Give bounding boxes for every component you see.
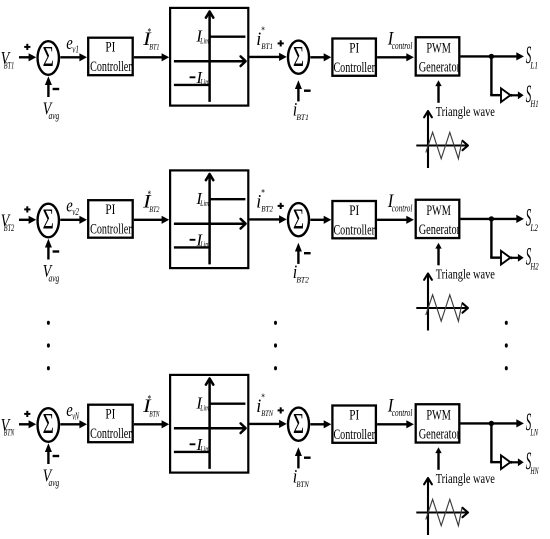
limiter horizontal axis row 2 bbox=[174, 219, 246, 229]
svg-text:Lim: Lim bbox=[200, 77, 210, 86]
vertical ellipsis dots (right column) bbox=[505, 321, 508, 371]
wire inverter to S_H2 row 2 bbox=[513, 254, 524, 262]
svg-text:PI: PI bbox=[105, 407, 115, 423]
triangle wave symbol horizontal axis row 1 bbox=[416, 141, 468, 150]
junction node dot on PWM output row 3 bbox=[489, 421, 494, 426]
branch wire down to inverter row 2 bbox=[490, 219, 502, 258]
limiter lower saturation level line row 2 bbox=[174, 246, 210, 248]
node I*_BT2 reference current label bbox=[142, 189, 160, 214]
current limiter block (saturation) row 1 bbox=[170, 8, 248, 106]
svg-text:BT1: BT1 bbox=[261, 41, 273, 51]
limiter lower saturation level line row 3 bbox=[174, 451, 210, 453]
svg-text:v1: v1 bbox=[72, 45, 79, 56]
svg-text:PI: PI bbox=[349, 203, 359, 219]
wire PWM generator output to S_L2 row 2 bbox=[461, 215, 524, 223]
svg-text:Lim: Lim bbox=[200, 37, 210, 46]
svg-text:H1: H1 bbox=[530, 99, 539, 109]
plus sign at current summer row 3 bbox=[278, 407, 284, 413]
svg-text:Controller: Controller bbox=[90, 59, 132, 75]
wire PI controller to current limiter row 2 bbox=[134, 216, 169, 224]
node i*_BT2 limited reference label bbox=[256, 188, 273, 213]
node I_control label row 2 bbox=[387, 191, 413, 214]
summing junction (current loop, row 3) bbox=[288, 408, 309, 441]
svg-text:Σ: Σ bbox=[43, 41, 54, 73]
svg-text:Triangle wave: Triangle wave bbox=[436, 472, 495, 487]
i_BT1 feedback arrow into current summer row 1 bbox=[295, 80, 302, 101]
limiter lower saturation level line row 1 bbox=[174, 84, 210, 86]
svg-text:Triangle wave: Triangle wave bbox=[436, 267, 495, 282]
minus sign at voltage summer row 1 bbox=[53, 88, 60, 90]
triangle wave symbol vertical axis row 1 bbox=[424, 111, 432, 168]
wire V_BT1 to voltage summer bbox=[19, 53, 36, 61]
svg-text:Lim: Lim bbox=[200, 444, 210, 453]
wire current summer to PI controller row 3 bbox=[310, 420, 331, 428]
vertical ellipsis dots (middle column) bbox=[274, 321, 277, 371]
summing junction (voltage loop, row 1) bbox=[38, 41, 59, 75]
svg-text:BTN: BTN bbox=[296, 479, 309, 489]
minus sign at voltage summer row 3 bbox=[53, 455, 60, 457]
svg-text:Σ: Σ bbox=[43, 204, 54, 236]
wire current summer to PI controller row 1 bbox=[310, 53, 331, 61]
svg-text:PWM: PWM bbox=[426, 407, 451, 423]
svg-text:H2: H2 bbox=[530, 262, 539, 272]
wire current summer to PI controller row 2 bbox=[310, 216, 331, 224]
limiter vertical axis row 3 bbox=[206, 379, 213, 469]
triangle wave carrier arrow into PWM generator row 2 bbox=[435, 243, 441, 265]
wire PI controller to PWM generator row 1 bbox=[377, 53, 414, 61]
svg-text:*: * bbox=[148, 394, 152, 405]
svg-text:Controller: Controller bbox=[333, 60, 375, 76]
PI controller block U1b (current loop) bbox=[332, 39, 376, 77]
wire voltage summer to PI controller row 1, error e_v1 bbox=[60, 53, 87, 61]
svg-text:BT2: BT2 bbox=[4, 223, 15, 233]
PI controller block U3b (current loop) bbox=[332, 406, 376, 444]
node S_HN output label bbox=[526, 448, 539, 476]
plus sign at current summer row 1 bbox=[278, 40, 284, 46]
svg-text:BT1: BT1 bbox=[4, 61, 14, 71]
svg-text:avg: avg bbox=[49, 478, 60, 489]
svg-text:PI: PI bbox=[349, 407, 359, 423]
wire inverter to S_HN row 3 bbox=[513, 458, 524, 466]
node V_BT1 input label bbox=[1, 48, 14, 71]
wire V_BTN to voltage summer bbox=[19, 420, 36, 428]
PI controller block U2a (voltage loop) bbox=[88, 200, 133, 238]
triangle wave symbol vertical axis row 3 bbox=[424, 478, 432, 535]
node V_avg label bbox=[43, 261, 60, 284]
svg-text:BT2: BT2 bbox=[261, 204, 273, 214]
junction node dot on PWM output row 1 bbox=[489, 54, 494, 59]
svg-text:*: * bbox=[261, 188, 265, 199]
svg-text:Σ: Σ bbox=[293, 42, 304, 73]
svg-text:PWM: PWM bbox=[426, 40, 451, 56]
node e_vN error label bbox=[66, 400, 80, 423]
limiter I_Lim value label row 3 bbox=[195, 394, 209, 413]
wire limiter to current summer row 1 bbox=[249, 53, 286, 61]
wire V_BT2 to voltage summer bbox=[19, 216, 36, 224]
svg-text:Controller: Controller bbox=[333, 427, 375, 443]
wire PI controller to PWM generator row 3 bbox=[377, 420, 414, 428]
svg-text:control: control bbox=[392, 408, 413, 419]
node V_avg label bbox=[43, 466, 60, 489]
svg-text:vN: vN bbox=[72, 412, 80, 423]
svg-text:BTN: BTN bbox=[261, 408, 274, 418]
svg-text:PI: PI bbox=[105, 202, 115, 218]
triangle wave carrier arrow into PWM generator row 3 bbox=[435, 447, 441, 470]
svg-text:Controller: Controller bbox=[90, 426, 132, 442]
svg-text:control: control bbox=[392, 41, 413, 52]
summing junction (voltage loop, row 3) bbox=[38, 408, 59, 442]
branch wire down to inverter row 3 bbox=[490, 423, 502, 462]
PI controller block U1a (voltage loop) bbox=[88, 38, 133, 75]
svg-text:Controller: Controller bbox=[90, 222, 132, 238]
wire limiter to current summer row 2 bbox=[249, 215, 286, 223]
triangle wave symbol horizontal axis row 3 bbox=[416, 508, 468, 517]
limiter vertical axis row 1 bbox=[206, 12, 213, 102]
svg-text:BT2: BT2 bbox=[296, 275, 309, 285]
PWM generator block row 3 bbox=[416, 404, 460, 442]
svg-text:Lim: Lim bbox=[200, 404, 210, 413]
wire inverter to S_H1 row 1 bbox=[513, 91, 524, 99]
triangle wave zigzag waveform row 3 bbox=[426, 499, 462, 525]
inverter (NOT) gate row 2 bbox=[501, 251, 513, 265]
triangle wave carrier arrow into PWM generator row 1 bbox=[435, 80, 441, 103]
svg-text:BT2: BT2 bbox=[149, 204, 160, 214]
node i_BT1 feedback current label bbox=[293, 100, 309, 123]
wire voltage summer to PI controller row 2, error e_v2 bbox=[60, 216, 87, 224]
svg-text:*: * bbox=[261, 393, 265, 404]
wire PWM generator output to S_LN row 3 bbox=[461, 419, 524, 427]
triangle wave zigzag waveform row 1 bbox=[426, 132, 462, 158]
node e_v2 error label bbox=[66, 195, 79, 218]
node S_H1 output label bbox=[526, 81, 539, 109]
wire PI controller to current limiter row 1 bbox=[134, 53, 169, 61]
svg-text:Generator: Generator bbox=[419, 427, 460, 443]
i_BTN feedback arrow into current summer row 3 bbox=[295, 447, 302, 468]
current limiter block (saturation) row 2 bbox=[170, 170, 248, 268]
summing junction (current loop, row 1) bbox=[288, 41, 309, 74]
svg-text:BTN: BTN bbox=[149, 408, 160, 418]
limiter -I_Lim value label row 2 bbox=[190, 231, 210, 250]
triangle wave symbol vertical axis row 2 bbox=[424, 274, 432, 331]
plus sign at current summer row 2 bbox=[278, 203, 284, 209]
minus sign at voltage summer row 2 bbox=[53, 250, 60, 252]
wire voltage summer to PI controller row 3, error e_vN bbox=[60, 420, 87, 428]
triangle wave symbol horizontal axis row 2 bbox=[416, 303, 468, 312]
limiter upper saturation level line row 2 bbox=[210, 198, 246, 200]
svg-text:PWM: PWM bbox=[426, 203, 451, 219]
svg-text:Triangle wave: Triangle wave bbox=[436, 105, 495, 120]
node I_control label row 1 bbox=[387, 29, 413, 52]
svg-text:Generator: Generator bbox=[419, 222, 460, 238]
limiter I_Lim value label row 2 bbox=[195, 189, 209, 208]
PWM generator block row 2 bbox=[416, 200, 460, 238]
node I*_BTN reference current label bbox=[142, 394, 160, 419]
limiter I_Lim value label row 1 bbox=[195, 27, 209, 46]
plus sign at summer S1a input bbox=[24, 44, 30, 50]
node V_avg label bbox=[43, 99, 60, 122]
svg-text:BT1: BT1 bbox=[149, 41, 159, 51]
svg-text:v2: v2 bbox=[72, 207, 79, 218]
node e_v1 error label bbox=[66, 33, 79, 56]
V_avg feedback arrow into voltage summer row 2 bbox=[45, 239, 52, 260]
PI controller block U2b (current loop) bbox=[332, 201, 376, 239]
wire PI controller to current limiter row 3 bbox=[134, 420, 169, 428]
svg-text:Generator: Generator bbox=[419, 60, 460, 76]
triangle wave zigzag waveform row 2 bbox=[426, 295, 462, 321]
minus sign at current summer row 2 bbox=[304, 252, 311, 254]
svg-text:L2: L2 bbox=[530, 223, 539, 233]
node V_BT2 input label bbox=[1, 210, 15, 233]
limiter upper saturation level line row 1 bbox=[210, 36, 246, 38]
limiter -I_Lim value label row 3 bbox=[190, 435, 210, 454]
svg-text:Σ: Σ bbox=[293, 409, 304, 440]
inverter (NOT) gate row 3 bbox=[501, 455, 513, 469]
plus sign at summer S3a input bbox=[24, 411, 30, 417]
svg-text:avg: avg bbox=[49, 273, 60, 284]
minus sign at current summer row 1 bbox=[304, 89, 311, 91]
svg-text:avg: avg bbox=[49, 111, 60, 122]
svg-text:control: control bbox=[392, 203, 413, 214]
wire limiter to current summer row 3 bbox=[249, 420, 286, 428]
summing junction (current loop, row 2) bbox=[288, 203, 309, 236]
svg-text:Lim: Lim bbox=[200, 240, 210, 249]
plus sign at summer S2a input bbox=[24, 206, 30, 212]
PWM generator block row 1 bbox=[416, 37, 460, 75]
svg-text:HN: HN bbox=[530, 466, 539, 476]
vertical ellipsis dots (left column) bbox=[47, 321, 50, 371]
V_avg feedback arrow into voltage summer row 1 bbox=[45, 76, 52, 97]
node i_BTN feedback current label bbox=[293, 467, 310, 490]
minus sign at current summer row 3 bbox=[304, 457, 311, 459]
svg-text:LN: LN bbox=[530, 427, 539, 437]
svg-text:PI: PI bbox=[105, 40, 115, 56]
svg-text:Σ: Σ bbox=[43, 408, 54, 440]
svg-text:L1: L1 bbox=[530, 60, 538, 70]
svg-text:Lim: Lim bbox=[200, 199, 210, 208]
node S_L2 output label bbox=[526, 204, 539, 233]
current limiter block (saturation) row 3 bbox=[170, 375, 248, 473]
junction node dot on PWM output row 2 bbox=[489, 216, 494, 221]
summing junction (voltage loop, row 2) bbox=[38, 204, 59, 238]
PI controller block U3a (voltage loop) bbox=[88, 405, 133, 443]
node i*_BTN limited reference label bbox=[256, 393, 274, 418]
limiter upper saturation level line row 3 bbox=[210, 403, 246, 405]
branch wire down to inverter row 1 bbox=[490, 56, 502, 95]
node S_H2 output label bbox=[526, 243, 539, 271]
svg-text:BT1: BT1 bbox=[296, 112, 308, 122]
node I*_BT1 reference current label bbox=[142, 27, 160, 52]
svg-text:BTN: BTN bbox=[4, 428, 15, 438]
node V_BTN input label bbox=[1, 415, 15, 438]
wire PWM generator output to S_L1 row 1 bbox=[461, 52, 524, 60]
node i_BT2 feedback current label bbox=[293, 262, 310, 285]
svg-text:*: * bbox=[261, 26, 265, 37]
svg-text:Controller: Controller bbox=[333, 223, 375, 239]
limiter -I_Lim value label row 1 bbox=[190, 68, 210, 87]
V_avg feedback arrow into voltage summer row 3 bbox=[45, 443, 52, 464]
svg-text:Σ: Σ bbox=[293, 204, 304, 235]
wire PI controller to PWM generator row 2 bbox=[377, 216, 414, 224]
limiter horizontal axis row 3 bbox=[174, 423, 246, 433]
node S_LN output label bbox=[526, 409, 539, 438]
svg-text:*: * bbox=[148, 27, 152, 38]
inverter (NOT) gate row 1 bbox=[501, 88, 513, 102]
svg-text:PI: PI bbox=[349, 40, 359, 56]
limiter horizontal axis row 1 bbox=[174, 56, 246, 66]
node S_L1 output label bbox=[526, 42, 538, 71]
node I_control label row 3 bbox=[387, 396, 413, 419]
limiter vertical axis row 2 bbox=[206, 174, 213, 264]
svg-text:*: * bbox=[148, 189, 152, 200]
node i*_BT1 limited reference label bbox=[256, 26, 273, 51]
i_BT2 feedback arrow into current summer row 2 bbox=[295, 243, 302, 264]
